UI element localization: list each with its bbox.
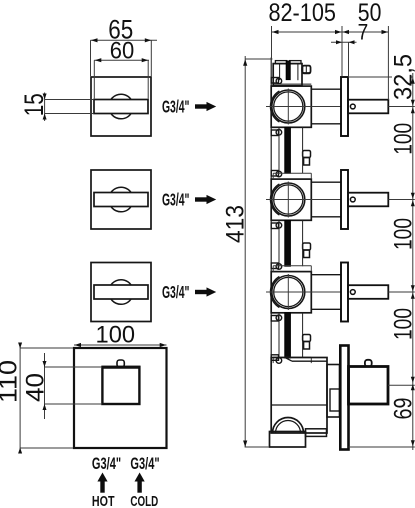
valve bore outer circle 3 xyxy=(272,276,305,309)
mounting rail xyxy=(270,58,272,431)
handle knob circle 3 xyxy=(109,280,134,305)
text mask 32,5 xyxy=(392,56,411,103)
valve stem 2 xyxy=(348,193,388,207)
dimension line 413 xyxy=(244,56,246,447)
thermostat left flange xyxy=(271,355,278,361)
supply arch outer xyxy=(273,418,304,434)
connecting pipe 2 xyxy=(285,220,291,266)
outlet port plug 1 xyxy=(303,66,311,74)
valve bore inner circle 3 xyxy=(274,277,303,306)
flow arrow row 1 xyxy=(195,102,216,111)
svg-text:100: 100 xyxy=(390,218,415,250)
dimension line 100 bottom xyxy=(74,344,167,346)
wall plate 1 xyxy=(341,77,348,136)
outlet port plug 3 xyxy=(303,243,311,250)
dimension line 60 xyxy=(94,59,149,61)
svg-text:G3/4": G3/4" xyxy=(130,455,159,473)
cartridge tube 2 xyxy=(311,181,341,183)
handle knob circle 2 xyxy=(109,187,134,212)
stem set screw 2 xyxy=(350,197,355,202)
cap side port xyxy=(302,66,311,73)
svg-text:G3/4": G3/4" xyxy=(162,96,190,116)
left flange bottom 1 xyxy=(271,130,278,136)
cartridge tube 3 xyxy=(311,274,341,276)
dimension line 7 xyxy=(331,41,357,43)
thermostat body split line xyxy=(271,404,327,406)
valve body 2 xyxy=(271,179,311,220)
dimension line 65 xyxy=(91,39,158,41)
dimension line 82-105 / 50 xyxy=(271,26,273,59)
bottom outlet box xyxy=(270,432,306,448)
left flange top 2 xyxy=(271,171,278,177)
supply arch inner xyxy=(276,421,301,434)
retaining ring arc 1 xyxy=(270,91,279,122)
cold inlet arrow xyxy=(135,473,145,493)
cartridge block inner xyxy=(330,389,340,411)
connecting pipe 3 xyxy=(285,313,291,358)
stem set screw 1 xyxy=(350,104,355,109)
dimension line 40 xyxy=(44,353,46,419)
svg-text:69: 69 xyxy=(390,398,415,420)
thermostat handle knob xyxy=(365,360,372,367)
cartridge block outer xyxy=(327,365,340,418)
svg-text:COLD: COLD xyxy=(130,494,158,508)
function block top edge xyxy=(102,366,141,369)
valve body 1 xyxy=(271,86,311,127)
valve bore outer circle 1 xyxy=(272,90,305,123)
body ledge unit 4 xyxy=(273,356,311,358)
thermostat body ledge xyxy=(292,360,327,362)
left flange bottom 2 xyxy=(271,223,278,229)
bottom side stub xyxy=(306,429,327,437)
dimension line 15 xyxy=(44,93,46,122)
centerline vertical 2 xyxy=(287,182,289,218)
svg-text:7: 7 xyxy=(358,20,369,45)
svg-text:G3/4": G3/4" xyxy=(162,189,190,209)
thermostat handle xyxy=(349,367,389,405)
trim plate square 1 xyxy=(91,77,151,136)
handle lever bar 3 xyxy=(94,285,148,299)
valve stem 3 xyxy=(348,285,388,299)
function block window xyxy=(102,367,139,404)
stem set screw 3 xyxy=(350,290,355,295)
flow arrow row 2 xyxy=(195,195,216,204)
centerline vertical 3 xyxy=(287,274,289,310)
flow arrow row 3 xyxy=(195,287,216,296)
valve bore outer circle 2 xyxy=(272,183,305,216)
valve bore inner circle 1 xyxy=(274,92,303,121)
left flange top 1 xyxy=(271,78,278,84)
handle lever bar 1 xyxy=(94,100,148,114)
centerline horizontal 1 xyxy=(266,106,341,108)
svg-text:15: 15 xyxy=(19,93,49,116)
trim plate square 3 xyxy=(91,263,151,322)
retaining ring arc 2 xyxy=(270,184,279,215)
svg-text:HOT: HOT xyxy=(92,494,115,508)
body ledge unit 2 xyxy=(273,172,311,174)
temperature stop knob xyxy=(117,360,124,367)
right dimension chain xyxy=(412,73,414,450)
svg-text:G3/4": G3/4" xyxy=(162,282,190,302)
dimension line 110 xyxy=(19,344,21,452)
svg-text:32,5: 32,5 xyxy=(390,54,415,100)
centerline vertical 1 xyxy=(287,89,289,125)
cartridge cap unit 1 xyxy=(273,64,302,86)
body ledge unit 3 xyxy=(273,265,311,267)
cartridge tube 1 xyxy=(311,88,341,90)
retaining ring arc 3 xyxy=(270,277,279,308)
wall plate 4 xyxy=(340,346,348,450)
svg-text:82-105: 82-105 xyxy=(268,0,336,27)
valve stem 1 xyxy=(348,100,388,114)
svg-text:413: 413 xyxy=(222,205,250,243)
valve body 3 xyxy=(271,272,311,313)
trim plate square 2 xyxy=(91,170,151,229)
connecting pipe 1 xyxy=(285,127,291,173)
left flange top 3 xyxy=(271,263,278,269)
svg-text:40: 40 xyxy=(22,373,50,402)
handle knob circle 1 xyxy=(109,94,134,119)
svg-text:110: 110 xyxy=(0,360,23,403)
outlet port plug 4 xyxy=(303,335,311,342)
svg-text:100: 100 xyxy=(390,123,415,155)
left flange bottom 3 xyxy=(271,316,278,322)
wall plate 2 xyxy=(341,170,348,229)
centerline horizontal 2 xyxy=(266,199,341,201)
wall plate 3 xyxy=(341,263,348,322)
outlet port plug 2 xyxy=(303,151,311,158)
svg-text:G3/4": G3/4" xyxy=(92,455,121,473)
valve bore inner circle 2 xyxy=(274,185,303,214)
svg-text:100: 100 xyxy=(96,322,136,349)
svg-text:60: 60 xyxy=(110,37,135,64)
handle lever bar 2 xyxy=(94,193,148,207)
hot inlet arrow xyxy=(97,473,107,493)
svg-text:100: 100 xyxy=(390,308,415,340)
centerline horizontal 3 xyxy=(266,291,341,293)
thermostat body xyxy=(271,358,327,434)
large trim plate xyxy=(74,348,167,448)
